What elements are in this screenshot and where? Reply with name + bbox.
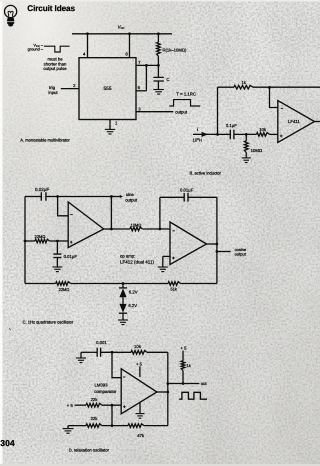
- svg-text:Circuit Ideas: Circuit Ideas: [27, 4, 75, 13]
- svg-text:input: input: [48, 90, 58, 95]
- svg-text:+ 5: + 5: [136, 362, 143, 367]
- svg-text:T = 1.1RC: T = 1.1RC: [176, 92, 196, 97]
- svg-text:B. active inductor: B. active inductor: [190, 170, 222, 175]
- svg-text:10MΩ: 10MΩ: [131, 222, 142, 227]
- svg-text:51k: 51k: [170, 286, 176, 291]
- svg-text:output: output: [125, 198, 138, 203]
- svg-text:C: C: [166, 77, 169, 82]
- svg-text:22MΩ: 22MΩ: [59, 287, 70, 292]
- svg-text:0.01μF: 0.01μF: [180, 187, 194, 192]
- svg-text:304: 304: [0, 438, 15, 448]
- svg-text:10k: 10k: [259, 127, 267, 132]
- svg-text:1k: 1k: [187, 363, 191, 368]
- svg-text:LF411: LF411: [288, 119, 300, 124]
- svg-text:6.2V: 6.2V: [128, 303, 137, 308]
- svg-text:0.001: 0.001: [96, 340, 107, 345]
- svg-text:555: 555: [103, 86, 111, 92]
- svg-text:out: out: [201, 381, 208, 386]
- svg-text:ground –: ground –: [28, 47, 44, 52]
- svg-text:op amp:: op amp:: [120, 253, 135, 258]
- svg-text:22k: 22k: [91, 397, 99, 402]
- svg-text:R(1k–10MΩ): R(1k–10MΩ): [163, 48, 187, 53]
- svg-text:10MΩ: 10MΩ: [251, 148, 262, 153]
- svg-text:LF412 (dual 411): LF412 (dual 411): [120, 260, 154, 265]
- svg-text:output: output: [235, 252, 247, 257]
- svg-text:22MΩ: 22MΩ: [35, 234, 46, 239]
- svg-text:output: output: [175, 110, 188, 115]
- svg-text:sine: sine: [126, 192, 134, 197]
- svg-text:10k: 10k: [134, 344, 142, 349]
- svg-text:0.01μF: 0.01μF: [64, 254, 78, 259]
- svg-text:6.2V: 6.2V: [129, 289, 138, 294]
- svg-text:+ 5: + 5: [180, 345, 187, 350]
- svg-text:A. monostable multivibrator: A. monostable multivibrator: [20, 138, 70, 143]
- svg-text:comparator: comparator: [94, 389, 117, 394]
- svg-text:103H: 103H: [193, 137, 202, 142]
- svg-text:22k: 22k: [91, 416, 99, 421]
- svg-text:output pulse: output pulse: [43, 66, 67, 71]
- svg-text:D. relaxation oscillator: D. relaxation oscillator: [69, 447, 110, 452]
- svg-text:+ 5: + 5: [67, 403, 74, 408]
- svg-text:47k: 47k: [137, 433, 145, 438]
- svg-text:0.1μF: 0.1μF: [226, 123, 237, 128]
- svg-text:0.02μF: 0.02μF: [35, 187, 49, 192]
- svg-text:C. 1Hz quadrature oscillator: C. 1Hz quadrature oscillator: [23, 320, 74, 325]
- svg-text:LM393: LM393: [95, 382, 109, 387]
